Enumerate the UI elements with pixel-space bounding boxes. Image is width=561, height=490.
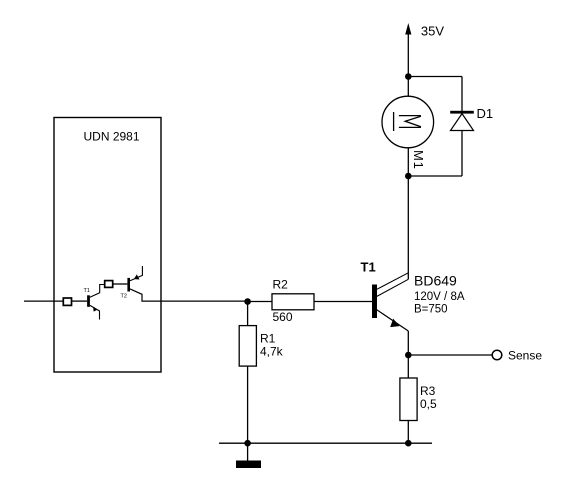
wire diode bottom to node B: [408, 175, 462, 177]
svg-text:T2: T2: [121, 294, 127, 300]
svg-text:120V / 8A: 120V / 8A: [414, 291, 465, 303]
motor M symbol rotated M with underline: [394, 112, 421, 131]
wire node A to motor top: [407, 77, 409, 97]
svg-text:BD649: BD649: [414, 273, 457, 289]
wire R3 to node D: [407, 421, 409, 444]
diode D1 triangle: [451, 114, 474, 131]
wire node A to diode top: [408, 76, 462, 78]
svg-text:560: 560: [273, 310, 293, 324]
transistor Q2 base bar: [127, 278, 130, 292]
resistor R1: [239, 326, 256, 367]
node C junction: [405, 352, 412, 359]
wire node F to R1: [247, 302, 249, 326]
wire motor bottom to node B: [407, 148, 409, 176]
wire supply to node A: [407, 34, 409, 77]
svg-text:UDN 2981: UDN 2981: [84, 130, 140, 144]
wire R1 to node E: [247, 366, 249, 443]
coupling resistor square: [105, 281, 113, 288]
bottom rail wire: [219, 442, 432, 444]
svg-text:D1: D1: [477, 106, 494, 121]
svg-text:35V: 35V: [421, 23, 444, 38]
input wire: [24, 300, 63, 302]
wire node C to R3: [407, 355, 409, 378]
transistor T1 base bar: [372, 285, 377, 319]
wire node B to T1 collector: [407, 176, 409, 279]
svg-text:M1: M1: [411, 150, 426, 170]
wire node C to sense terminal: [408, 354, 492, 356]
transistor Q1 emitter arrow: [93, 307, 97, 312]
transistor Q1 collector path: [90, 285, 105, 298]
transistor Q1 base bar: [87, 295, 90, 307]
wire square to Q1 base: [72, 300, 87, 302]
transistor T1 emitter arrow: [390, 319, 399, 328]
svg-text:R3: R3: [420, 384, 436, 398]
resistor R2: [272, 294, 314, 310]
input resistor square: [63, 298, 71, 305]
transistor Q2 collector: [130, 289, 248, 301]
svg-text:4,7k: 4,7k: [260, 345, 284, 359]
wire square to Q2 base: [113, 283, 128, 285]
svg-text:T1: T1: [361, 259, 376, 274]
svg-text:Sense: Sense: [508, 349, 542, 363]
ground bar: [236, 461, 261, 469]
transistor T1 collector double line: [377, 273, 409, 290]
node A junction: [405, 73, 412, 80]
transistor Q2 emitter: [130, 266, 142, 281]
wire diode bottom vertical: [461, 131, 463, 177]
svg-text:B=750: B=750: [414, 304, 448, 316]
svg-text:R2: R2: [273, 278, 289, 292]
transistor Q1 emitter: [90, 305, 100, 319]
wire diode top vertical: [461, 77, 463, 112]
node B junction: [405, 173, 412, 180]
transistor Q2 emitter arrow: [134, 274, 140, 279]
node E junction: [244, 440, 251, 447]
power arrow 35V: [405, 23, 411, 35]
node F junction R1 R2: [244, 298, 251, 305]
sense terminal circle: [492, 350, 502, 360]
svg-text:R1: R1: [260, 332, 276, 346]
ground stub wire: [247, 443, 249, 460]
transistor T1 emitter: [377, 310, 409, 331]
motor M1 circle: [382, 96, 434, 148]
svg-text:0,5: 0,5: [420, 397, 437, 411]
wire T1 emitter to node C: [407, 331, 409, 355]
wire R2 to T1 base: [314, 301, 372, 303]
UDN 2981 box: [54, 118, 161, 373]
node D junction: [405, 440, 412, 447]
resistor R3: [400, 378, 417, 421]
diode D1 cathode bar: [450, 111, 474, 114]
svg-text:T1: T1: [84, 288, 90, 294]
wire node F to R2: [248, 301, 272, 303]
